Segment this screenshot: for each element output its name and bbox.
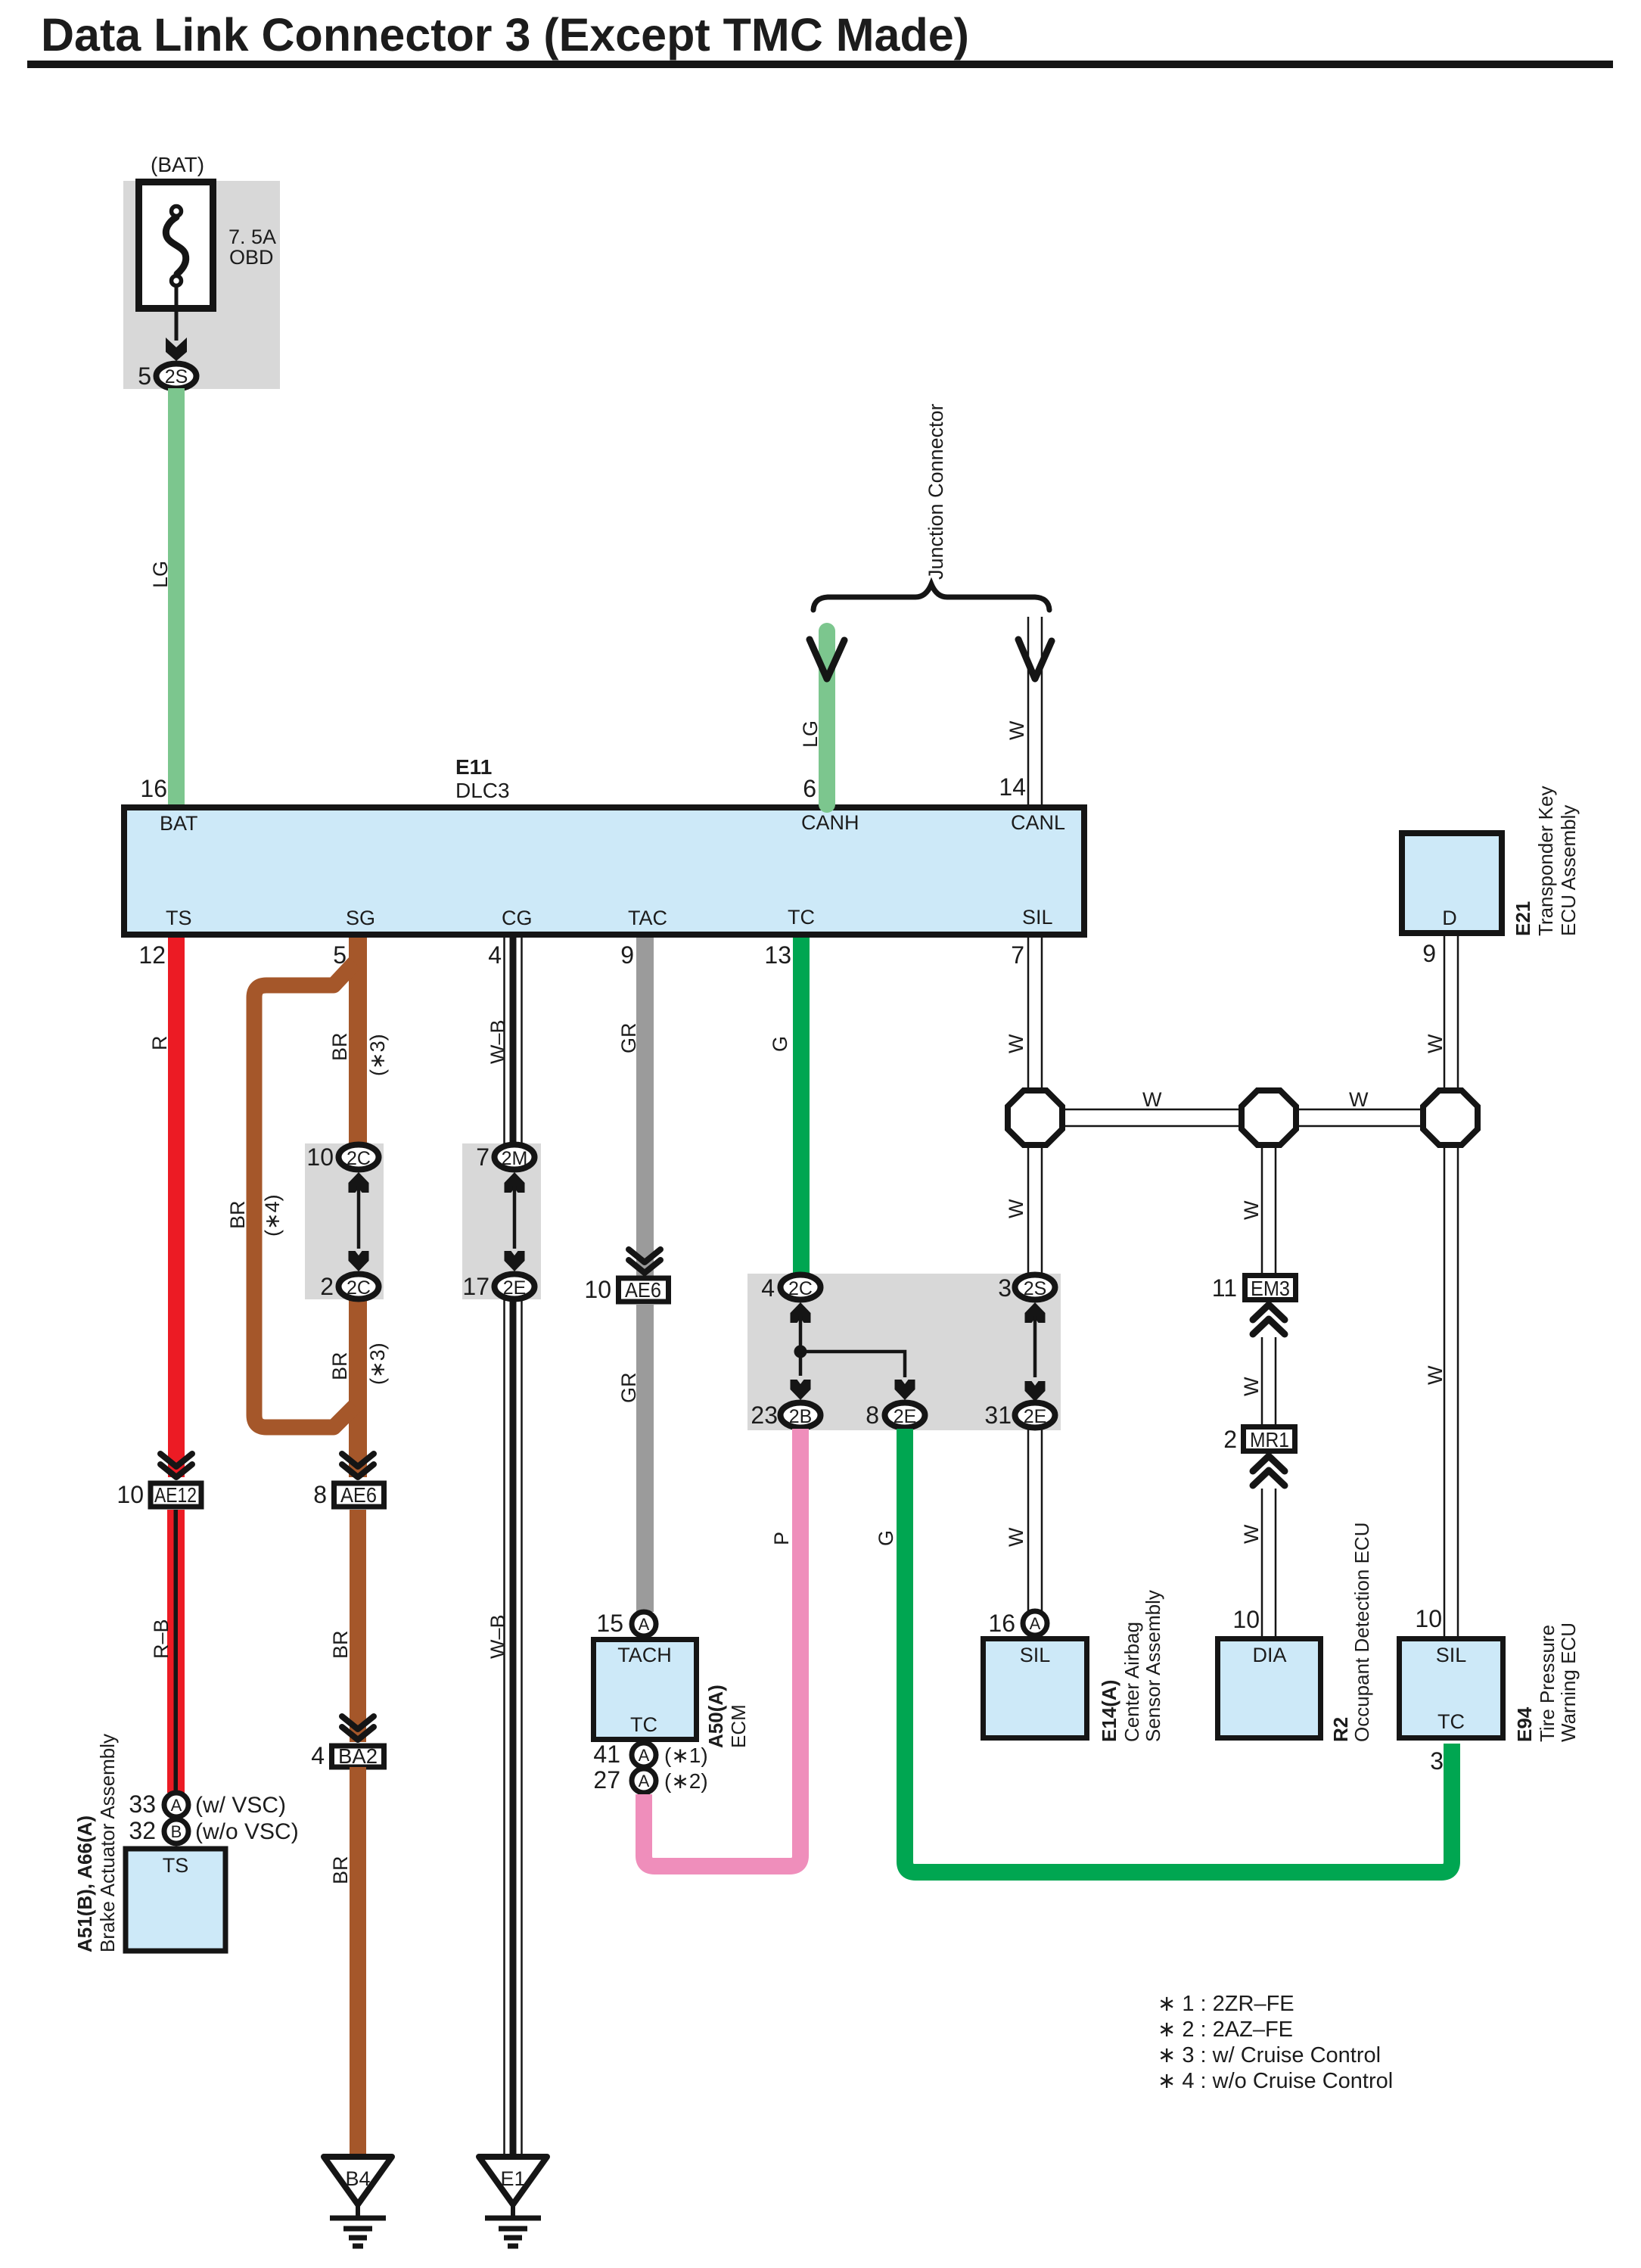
svg-text:2E: 2E [1024,1406,1047,1427]
svg-text:(∗1): (∗1) [664,1744,708,1767]
svg-text:14: 14 [999,773,1026,801]
svg-text:D: D [1442,907,1457,929]
svg-text:(∗3): (∗3) [366,1342,389,1385]
svg-text:5: 5 [138,362,151,390]
svg-text:B4: B4 [345,2167,370,2190]
svg-text:W: W [1424,1034,1447,1053]
arrow on W junction wire [1018,639,1052,679]
svg-text:∗ 3 : w/ Cruise Control: ∗ 3 : w/ Cruise Control [1158,2043,1381,2067]
connector pair arrows [1025,1302,1046,1323]
svg-text:W: W [1240,1200,1263,1220]
connector oval 2S pin 3 [1015,1275,1055,1300]
svg-text:OBD: OBD [229,246,274,269]
svg-text:(∗3): (∗3) [366,1034,389,1076]
svg-text:W–B: W–B [486,1614,509,1659]
connector oval 2B pin 23 [781,1403,821,1428]
svg-text:Occupant Detection ECU: Occupant Detection ECU [1350,1523,1373,1742]
svg-text:4: 4 [761,1274,775,1302]
svg-text:BR: BR [329,1856,352,1884]
svg-text:4: 4 [311,1742,325,1769]
arrow into BA2 [342,1716,374,1740]
svg-text:2: 2 [1223,1426,1237,1453]
svg-text:LG: LG [799,720,822,748]
svg-text:B: B [171,1822,182,1841]
ECU box TS brake actuator [126,1849,225,1951]
connector AE6 pin 8 [334,1483,384,1507]
svg-text:W: W [1142,1088,1162,1111]
wire fuse to connector 2S [175,287,179,341]
pin 41 A (*1) [632,1743,656,1767]
svg-text:3: 3 [1430,1747,1444,1775]
svg-text:W: W [1005,1527,1027,1547]
svg-text:41: 41 [593,1741,620,1768]
svg-text:W: W [1005,720,1028,740]
svg-text:(∗4): (∗4) [261,1194,284,1237]
svg-text:R2: R2 [1329,1717,1352,1742]
fuse block background [123,181,280,389]
wire LG from 2S to DLC3 pin 16 [168,388,185,804]
svg-text:33: 33 [129,1790,156,1818]
svg-text:31: 31 [984,1402,1012,1429]
svg-text:P: P [770,1532,793,1545]
svg-text:A: A [639,1615,650,1634]
svg-text:17: 17 [462,1273,490,1300]
connector BA2 pin 4 [332,1746,384,1767]
ground B4 [324,2157,392,2246]
svg-text:10: 10 [1232,1606,1260,1633]
svg-text:23: 23 [751,1402,778,1429]
svg-text:G: G [769,1036,791,1052]
svg-text:2E: 2E [503,1277,527,1299]
svg-text:E11: E11 [455,755,492,779]
junction octagon 3 [1423,1090,1478,1145]
svg-text:ECM: ECM [727,1704,750,1748]
arrow on LG junction wire [810,639,844,679]
wire R-B below AE12 [167,1510,185,1793]
svg-text:(BAT): (BAT) [151,153,204,176]
pin 16 A [1023,1611,1047,1635]
svg-text:27: 27 [593,1766,620,1794]
wire W octagon1 down to 2S [1027,1145,1030,1274]
svg-text:16: 16 [140,775,167,802]
wire W octagon3 down to E94 pin 10 [1444,1145,1446,1636]
arrow into 2E [895,1380,915,1400]
ECU box E94 tire pressure [1400,1639,1503,1738]
arrows out of EM3 [1253,1305,1285,1334]
svg-text:TC: TC [788,906,815,929]
pin 27 A (*2) [632,1769,656,1793]
svg-text:2C: 2C [347,1148,371,1169]
connector EM3 pin 11 [1245,1276,1296,1300]
svg-text:∗ 2 : 2AZ–FE: ∗ 2 : 2AZ–FE [1158,2018,1293,2042]
svg-text:15: 15 [596,1610,623,1637]
ECU box A50(A) ECM [594,1640,697,1740]
svg-text:GR: GR [617,1023,640,1054]
svg-text:ECU Assembly: ECU Assembly [1557,805,1580,936]
connector oval 2E pin 17 [495,1274,535,1299]
wire W-B below 2E [503,1299,505,2157]
svg-text:BR: BR [226,1200,249,1229]
arrow into AE6 [342,1454,374,1477]
svg-text:W: W [1240,1377,1263,1396]
svg-text:W: W [1240,1524,1263,1544]
junction octagon 2 [1242,1090,1296,1145]
pin 15 A [632,1612,656,1636]
fuse 7.5A OBD box [139,182,213,309]
junction octagon 1 [1008,1090,1062,1145]
svg-text:(w/ VSC): (w/ VSC) [195,1793,286,1818]
svg-text:2S: 2S [165,366,188,387]
svg-text:16: 16 [988,1610,1015,1637]
svg-text:W: W [1349,1088,1369,1111]
svg-text:32: 32 [129,1817,156,1844]
wire W octagon2 down to EM3 [1261,1145,1263,1274]
wire W 2E pin31 down to E14 pin 16 [1027,1429,1030,1611]
svg-text:Tire Pressure: Tire Pressure [1536,1625,1559,1742]
svg-text:A: A [171,1796,182,1815]
connector AE12 [151,1483,201,1507]
arrow into AE12 [160,1454,192,1477]
connector MR1 pin 2 [1244,1427,1295,1451]
svg-text:SG: SG [346,907,375,929]
connector oval 2S [157,364,197,389]
svg-text:BR: BR [328,1352,351,1380]
wire R from TS pin 12 [168,938,185,1477]
svg-text:7: 7 [476,1143,490,1171]
connector oval 2C pin 4 [781,1275,821,1300]
wire W EM3 to MR1 [1261,1337,1263,1424]
gray box 2M/2E pair [462,1143,541,1299]
svg-text:R: R [148,1036,171,1051]
svg-text:(w/o VSC): (w/o VSC) [195,1819,299,1844]
junction connector brace [813,584,1049,610]
svg-text:7. 5A: 7. 5A [228,226,276,248]
arrow into AE6 [629,1249,660,1273]
svg-text:E21: E21 [1512,901,1534,936]
wire BR loop (*4) [254,963,355,1427]
ground E1 [479,2157,547,2246]
connector oval 2C pin 2 [339,1274,379,1299]
svg-text:SIL: SIL [1020,1644,1051,1666]
svg-text:A: A [639,1746,650,1765]
ECU box E21 [1402,833,1502,933]
svg-text:TACH: TACH [617,1644,672,1666]
svg-text:11: 11 [1212,1274,1237,1302]
svg-text:Transponder Key: Transponder Key [1534,786,1557,936]
svg-text:LG: LG [149,561,172,588]
wire W MR1 to DIA pin 10 [1261,1489,1263,1636]
wire G from 2E to E94 TC pin 3 [905,1429,1452,1872]
svg-text:A: A [1030,1614,1041,1633]
svg-text:EM3: EM3 [1251,1277,1290,1300]
wire W octagon1 to octagon2 [1062,1109,1242,1111]
svg-text:BAT: BAT [160,812,198,835]
title underline [27,61,1613,68]
svg-text:10: 10 [306,1143,334,1171]
svg-text:2M: 2M [502,1148,528,1169]
svg-text:E94: E94 [1513,1706,1536,1742]
fuse element symbol [166,217,185,274]
svg-text:Warning ECU: Warning ECU [1557,1622,1580,1742]
svg-text:Center Airbag: Center Airbag [1120,1622,1143,1742]
svg-text:2C: 2C [788,1278,813,1299]
svg-text:Junction Connector: Junction Connector [925,403,947,580]
svg-text:TC: TC [630,1713,657,1736]
connector pair arrows [349,1172,369,1193]
branch wire to 2E [800,1352,905,1377]
svg-text:10: 10 [1415,1605,1442,1632]
svg-text:∗ 1 : 2ZR–FE: ∗ 1 : 2ZR–FE [1158,1992,1294,2016]
connector oval 2M pin 7 [495,1145,535,1170]
wire W-B from CG pin 4 [503,938,505,1144]
svg-text:A50(A): A50(A) [704,1685,727,1748]
pin 33 A (w/ VSC) [164,1793,188,1817]
svg-text:TS: TS [163,1854,189,1877]
svg-text:10: 10 [117,1481,144,1508]
wire W from junction connector to CANL pin 14 [1027,617,1030,804]
arrow into 2S [166,338,187,361]
svg-text:7: 7 [1011,941,1024,969]
svg-text:2B: 2B [789,1406,813,1427]
svg-text:2C: 2C [347,1277,371,1299]
svg-text:TC: TC [1437,1710,1465,1733]
svg-text:Brake Actuator Assembly: Brake Actuator Assembly [96,1734,119,1952]
svg-text:13: 13 [764,941,791,969]
connector AE6 pin 10 [619,1278,669,1302]
svg-text:BR: BR [329,1630,352,1659]
svg-text:CANL: CANL [1011,811,1065,834]
svg-text:R–B: R–B [150,1619,172,1659]
svg-text:W–B: W–B [486,1019,509,1064]
svg-text:G: G [875,1530,897,1546]
connector pair arrows [791,1302,811,1323]
svg-text:DIA: DIA [1252,1644,1286,1666]
svg-text:4: 4 [488,941,502,969]
ECU box E14(A) center airbag [984,1639,1087,1738]
svg-text:SIL: SIL [1436,1644,1467,1666]
wire GR below AE6 [636,1304,654,1612]
svg-text:W: W [1424,1365,1447,1385]
svg-text:3: 3 [998,1274,1012,1302]
connector oval 2E pin 8 [885,1403,925,1428]
arrows out of MR1 [1253,1456,1285,1486]
svg-text:W: W [1005,1034,1027,1053]
svg-text:9: 9 [620,941,634,969]
connector box E11 DLC3 [124,807,1084,935]
svg-text:8: 8 [866,1402,879,1429]
svg-text:10: 10 [584,1276,611,1303]
svg-text:8: 8 [313,1481,327,1508]
svg-text:(∗2): (∗2) [664,1769,708,1793]
gray box 2C pair [305,1143,384,1299]
svg-text:6: 6 [803,775,816,802]
wire GR from TAC pin 9 [636,938,654,1276]
svg-text:TAC: TAC [628,907,667,929]
svg-text:A: A [639,1772,650,1790]
connector oval 2E pin 31 [1015,1403,1055,1428]
wire BR below BA2 [350,1767,366,2158]
wire BR below AE6 [350,1510,366,1742]
svg-text:W: W [1005,1199,1027,1218]
ECU box R2 occupant detection [1218,1639,1321,1738]
wire LG from junction connector to CANH pin 6 [819,631,835,804]
svg-text:AE12: AE12 [154,1483,197,1507]
svg-text:DLC3: DLC3 [455,779,510,802]
svg-text:TS: TS [166,907,192,929]
svg-text:9: 9 [1422,940,1436,967]
svg-text:CANH: CANH [801,811,859,834]
wire W from E21 D to junction octagon [1444,936,1446,1090]
wire G from TC pin 13 [793,938,810,1277]
svg-text:MR1: MR1 [1250,1428,1289,1451]
svg-text:E14(A): E14(A) [1098,1680,1120,1742]
wire W octagon2 to octagon3 [1296,1109,1423,1111]
svg-text:SIL: SIL [1022,906,1053,929]
wire BR main from SG pin 5 [349,938,367,1477]
svg-text:A51(B), A66(A): A51(B), A66(A) [73,1815,96,1952]
svg-text:2E: 2E [894,1406,917,1427]
svg-text:2S: 2S [1024,1278,1047,1299]
svg-text:2: 2 [320,1273,334,1300]
wire P from 2B to ECM pin 27 [644,1429,800,1866]
junction dot [794,1346,807,1358]
connector oval 2C pin 10 [339,1145,379,1170]
svg-text:∗ 4 : w/o Cruise Control: ∗ 4 : w/o Cruise Control [1158,2069,1393,2093]
svg-text:AE6: AE6 [340,1483,377,1507]
svg-text:AE6: AE6 [625,1278,661,1302]
svg-text:BR: BR [328,1032,351,1061]
svg-text:BA2: BA2 [338,1744,378,1768]
svg-text:GR: GR [617,1373,640,1404]
wire W from SIL pin 7 to octagon [1027,938,1030,1090]
svg-text:12: 12 [138,941,166,969]
gray box CAN junction connectors [747,1274,1061,1430]
svg-text:Data Link Connector 3 (Except: Data Link Connector 3 (Except TMC Made) [41,9,969,61]
svg-text:CG: CG [502,907,533,929]
svg-text:Sensor Assembly: Sensor Assembly [1142,1590,1164,1742]
connector pair arrows [505,1172,525,1193]
svg-text:E1: E1 [500,2167,525,2190]
pin 32 B (w/o VSC) [164,1819,188,1843]
